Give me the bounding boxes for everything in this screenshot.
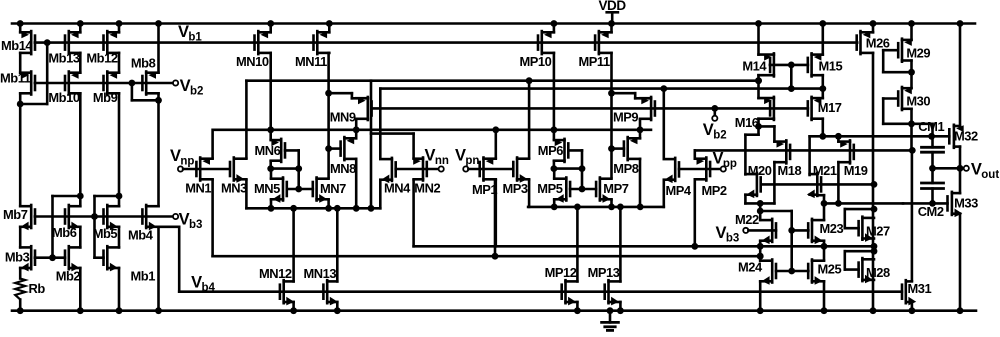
svg-text:Mb11: Mb11 — [0, 70, 31, 85]
svg-text:Mb3: Mb3 — [5, 249, 30, 264]
svg-text:np: np — [180, 155, 194, 167]
svg-text:V: V — [180, 77, 191, 95]
svg-text:M31: M31 — [908, 281, 932, 296]
svg-text:M16: M16 — [735, 115, 759, 130]
svg-text:MN5: MN5 — [254, 181, 280, 196]
svg-text:M20: M20 — [748, 163, 772, 178]
svg-text:MP4: MP4 — [666, 183, 692, 198]
svg-text:MP3: MP3 — [503, 181, 528, 196]
svg-text:VDD: VDD — [599, 0, 627, 13]
svg-text:b3: b3 — [189, 219, 202, 231]
svg-text:M30: M30 — [906, 93, 930, 108]
svg-text:CM1: CM1 — [918, 119, 944, 134]
svg-text:CM2: CM2 — [918, 204, 944, 219]
svg-text:pn: pn — [465, 155, 479, 167]
svg-text:M33: M33 — [954, 196, 978, 211]
svg-text:b1: b1 — [188, 31, 202, 43]
svg-text:MN3: MN3 — [221, 181, 247, 196]
svg-text:Mb10: Mb10 — [48, 90, 79, 105]
svg-text:MP13: MP13 — [588, 265, 620, 280]
svg-text:M23: M23 — [820, 221, 844, 236]
svg-text:b3: b3 — [726, 233, 739, 245]
svg-text:V: V — [703, 121, 714, 139]
svg-text:V: V — [971, 161, 982, 179]
svg-text:MP11: MP11 — [579, 54, 610, 69]
svg-text:MN6: MN6 — [255, 143, 281, 158]
svg-text:MN13: MN13 — [304, 266, 337, 281]
svg-text:M25: M25 — [818, 262, 842, 277]
svg-text:MP7: MP7 — [603, 181, 628, 196]
svg-text:MP8: MP8 — [613, 161, 638, 176]
svg-text:MN12: MN12 — [259, 266, 292, 281]
svg-text:M26: M26 — [866, 35, 890, 50]
svg-text:Mb6: Mb6 — [52, 225, 77, 240]
svg-text:Mb1: Mb1 — [131, 269, 156, 284]
svg-text:MN4: MN4 — [384, 181, 411, 196]
svg-text:Mb14: Mb14 — [1, 38, 33, 53]
svg-text:MP5: MP5 — [537, 181, 562, 196]
svg-text:Mb2: Mb2 — [56, 269, 81, 284]
svg-text:MN11: MN11 — [295, 54, 327, 69]
svg-text:V: V — [179, 210, 190, 228]
svg-text:nn: nn — [435, 155, 449, 167]
svg-text:V: V — [170, 147, 181, 165]
svg-text:V: V — [425, 147, 436, 165]
svg-text:V: V — [191, 273, 202, 291]
svg-text:MN9: MN9 — [330, 109, 356, 124]
svg-text:M19: M19 — [844, 163, 868, 178]
svg-text:M29: M29 — [906, 45, 930, 60]
svg-text:M18: M18 — [778, 163, 802, 178]
svg-text:Mb13: Mb13 — [48, 51, 79, 66]
svg-text:Mb12: Mb12 — [86, 51, 117, 66]
svg-text:M14: M14 — [742, 59, 767, 74]
svg-text:V: V — [455, 147, 466, 165]
svg-text:V: V — [178, 23, 189, 41]
svg-text:MN1: MN1 — [185, 181, 211, 196]
svg-text:MP12: MP12 — [545, 265, 577, 280]
svg-text:M27: M27 — [866, 223, 890, 238]
svg-text:Mb5: Mb5 — [93, 226, 118, 241]
svg-text:M28: M28 — [866, 265, 890, 280]
svg-text:b2: b2 — [713, 129, 726, 141]
svg-text:M17: M17 — [818, 100, 842, 115]
svg-text:MP10: MP10 — [520, 54, 552, 69]
svg-text:b2: b2 — [190, 85, 203, 97]
svg-text:M21: M21 — [813, 163, 837, 178]
svg-text:out: out — [981, 169, 999, 181]
svg-text:MN8: MN8 — [330, 161, 356, 176]
svg-text:V: V — [716, 224, 727, 242]
svg-text:MP1: MP1 — [472, 182, 497, 197]
svg-text:MN7: MN7 — [320, 181, 346, 196]
svg-text:M24: M24 — [738, 259, 763, 274]
svg-text:MN10: MN10 — [236, 54, 269, 69]
svg-text:MP2: MP2 — [702, 183, 727, 198]
svg-text:Mb7: Mb7 — [3, 207, 28, 222]
svg-text:MP9: MP9 — [613, 109, 638, 124]
svg-text:Mb9: Mb9 — [93, 90, 118, 105]
svg-text:MP6: MP6 — [538, 143, 563, 158]
svg-text:V: V — [713, 149, 724, 167]
svg-text:M15: M15 — [819, 59, 843, 74]
svg-text:MN2: MN2 — [414, 181, 440, 196]
svg-text:M22: M22 — [735, 212, 759, 227]
svg-text:Rb: Rb — [29, 281, 46, 296]
svg-text:M32: M32 — [954, 129, 978, 144]
svg-text:Mb8: Mb8 — [131, 56, 156, 71]
svg-text:Mb4: Mb4 — [128, 227, 154, 242]
